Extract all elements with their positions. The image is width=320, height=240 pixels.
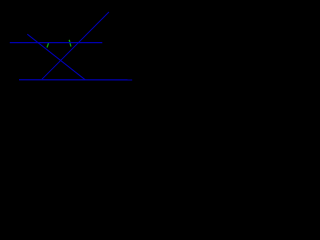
angle tick mark 2 (green, at right intersection on top line): [69, 40, 71, 47]
parallel line m (top horizontal): [10, 42, 103, 44]
transversal 2 (from bottom line, up-right): [42, 12, 109, 79]
background: [0, 0, 144, 118]
transversal 1 (from upper-left, down-right to bottom line): [27, 34, 85, 80]
parallel line n (bottom horizontal): [19, 79, 132, 81]
angle tick mark 1 (green, below left intersection on top line): [47, 43, 49, 48]
